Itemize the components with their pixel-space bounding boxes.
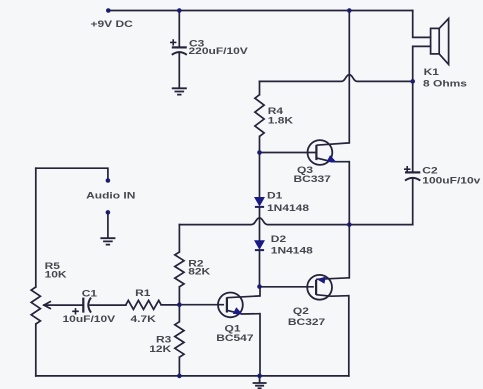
label Q1 <box>225 324 241 334</box>
ground (main rail) <box>253 376 267 388</box>
wire Q3 emitter drop to output junction <box>348 162 350 225</box>
node R4 / Q3 base / D1 <box>257 150 262 155</box>
node Audio IN terminal <box>106 178 111 183</box>
svg-text:220uF/10V: 220uF/10V <box>189 46 249 56</box>
label 8 Ohms <box>423 78 467 88</box>
node B: D2 / Q1 collector / Q2 base <box>257 284 262 289</box>
resistor R1 <box>126 300 161 309</box>
capacitor C1 <box>72 298 91 315</box>
node rail left end <box>106 8 111 13</box>
svg-text:1N4148: 1N4148 <box>271 246 313 256</box>
wire node to D1 anode <box>259 153 261 198</box>
label 10uF/10V <box>63 314 117 324</box>
svg-text:D1: D1 <box>267 191 282 201</box>
svg-text:BC327: BC327 <box>288 317 325 327</box>
wire R3 bottom to ground rail <box>178 357 180 376</box>
resistor R2 <box>175 252 184 287</box>
ground (C3) <box>172 88 187 94</box>
label 1.8K <box>268 116 294 126</box>
transistor Q1 (NPN BC547) <box>218 293 260 318</box>
wire R2 bottom to base node <box>178 287 180 305</box>
label 220uF/10V <box>189 46 249 56</box>
wire pot bottom lead <box>35 324 37 376</box>
label 1N4148 (D2) <box>271 246 313 256</box>
wire output node down to C2 <box>412 81 414 172</box>
wire pot top lead <box>35 168 37 287</box>
junction node dots <box>106 8 415 378</box>
label Q2 <box>293 306 309 316</box>
wire D2 cathode to node B <box>259 250 261 286</box>
transistor Q2 (PNP BC327) <box>307 275 349 300</box>
capacitor C2 <box>404 166 420 181</box>
wire Q1 collector riser to node B <box>259 287 261 296</box>
label R5 <box>45 261 60 271</box>
node output / speaker <box>410 79 415 84</box>
resistor R4 <box>255 95 264 137</box>
label D2 <box>271 234 286 244</box>
resistor R5 (potentiometer body) <box>31 287 40 324</box>
svg-text:D2: D2 <box>271 234 286 244</box>
label Audio IN <box>86 191 136 201</box>
wire C2 bottom lead <box>412 179 414 225</box>
potentiometer R5 wiper arrow <box>44 301 51 309</box>
svg-text:1.8K: 1.8K <box>268 116 294 126</box>
svg-text:8 Ohms: 8 Ohms <box>423 78 467 88</box>
label BC547 <box>216 333 253 343</box>
wire Q1 emitter drop to ground rail <box>259 314 261 376</box>
node R3 / ground rail <box>177 374 182 379</box>
wire Q2 emitter riser to output junction <box>348 225 350 278</box>
node audio ground terminal <box>106 210 111 215</box>
svg-text:1N4148: 1N4148 <box>267 203 309 213</box>
node rail / C3 <box>177 8 182 13</box>
wire Audio IN from pot top <box>36 168 108 180</box>
svg-text:C1: C1 <box>82 288 97 298</box>
node base of Q1 / R1 R2 R3 <box>177 302 182 307</box>
label C3 <box>189 39 204 49</box>
label 12K <box>149 344 171 354</box>
diode D1 <box>255 198 264 207</box>
svg-text:R1: R1 <box>135 288 150 298</box>
svg-text:BC547: BC547 <box>216 333 253 343</box>
label 4.7K <box>131 314 157 324</box>
label BC327 <box>288 317 325 327</box>
svg-text:10K: 10K <box>45 269 67 279</box>
wire C3 top lead <box>178 11 180 48</box>
capacitor C3 <box>170 39 187 88</box>
resistor R3 <box>175 322 184 358</box>
label R4 <box>268 106 283 116</box>
wire audio ground stub <box>107 212 109 237</box>
label 82K <box>188 267 210 277</box>
wire D1 cathode to D2 anode <box>259 208 261 241</box>
svg-text:+9V DC: +9V DC <box>91 19 134 29</box>
node output junction <box>347 222 352 227</box>
label Q3 <box>297 165 313 175</box>
svg-text:C2: C2 <box>422 166 437 176</box>
wire pot wiper to C1 <box>44 304 83 306</box>
wire R2 top riser <box>178 225 180 252</box>
wire R4 bottom lead to node <box>259 136 261 152</box>
svg-text:12K: 12K <box>149 344 171 354</box>
svg-text:4.7K: 4.7K <box>131 314 157 324</box>
wire +9V top rail <box>108 10 412 12</box>
svg-text:Audio IN: Audio IN <box>86 191 136 201</box>
label 100uF/10v <box>422 176 480 186</box>
svg-text:100uF/10v: 100uF/10v <box>422 176 480 186</box>
node rail / Q3 collector <box>347 8 352 13</box>
label K1 <box>424 67 439 77</box>
label 1N4148 (D1) <box>267 203 309 213</box>
speaker K1 <box>431 19 449 65</box>
node ground rail / ground symbol <box>257 374 262 379</box>
wire Q2 collector drop to ground rail <box>348 296 350 376</box>
wire R4 top to output node (hops over Q3 collector riser) <box>260 75 413 82</box>
label R2 <box>188 259 203 269</box>
wire Q1 base lead <box>179 304 223 306</box>
svg-text:K1: K1 <box>424 67 439 77</box>
svg-text:10uF/10V: 10uF/10V <box>63 314 117 324</box>
label R1 <box>135 288 150 298</box>
label C2 <box>422 166 437 176</box>
svg-text:82K: 82K <box>188 267 210 277</box>
wire bottom ground rail <box>36 375 349 377</box>
label +9V DC <box>91 19 134 29</box>
wire base node to R3 top <box>178 305 180 322</box>
svg-text:BC337: BC337 <box>294 174 331 184</box>
wire Q3 collector riser to rail <box>348 11 350 143</box>
wire Q3 base lead <box>260 152 317 154</box>
wire R4 top lead <box>259 81 261 94</box>
label BC337 <box>294 174 331 184</box>
wire speaker bottom terminal to output node <box>413 46 431 81</box>
label C1 <box>82 288 97 298</box>
wire rail to speaker top terminal <box>413 11 431 38</box>
ground (audio input) <box>100 238 115 244</box>
diode D2 <box>255 241 264 250</box>
wire Q2 base lead <box>260 286 314 288</box>
svg-text:Q2: Q2 <box>293 306 309 316</box>
label 10K <box>45 269 67 279</box>
wire R1 to base node <box>161 304 179 306</box>
label D1 <box>267 191 282 201</box>
svg-text:R3: R3 <box>156 334 171 344</box>
wire feedback R2 to output node (hops over diode column) <box>179 218 412 225</box>
transistor Q3 (NPN BC337) <box>308 140 350 165</box>
label R3 <box>156 334 171 344</box>
wire C1 to R1 <box>90 304 126 306</box>
